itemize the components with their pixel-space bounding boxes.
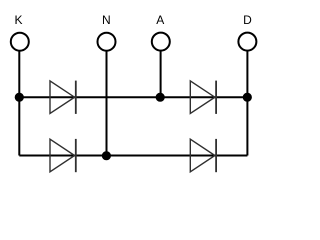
svg-text:D: D [243,13,252,27]
wire A column vertical [160,51,162,97]
wire N column vertical [106,51,108,156]
terminal circle A [152,33,170,51]
diode D3 (lower left, anode left, cathode right) [50,139,76,172]
terminal circle N [98,33,116,51]
terminal circle D [238,33,256,51]
terminal circle K [11,33,29,51]
diode D4 (lower right, anode left, cathode right) [190,139,216,172]
wire upper rail [19,96,247,98]
wire D column vertical [246,51,248,156]
svg-text:N: N [102,13,111,27]
junction node at K / upper rail [15,93,24,102]
wire lower rail [19,155,247,157]
junction node at A / upper rail [156,93,165,102]
diode D1 (upper left, anode left, cathode right) [50,81,76,114]
junction node at D / upper rail [243,93,252,102]
svg-text:K: K [14,13,22,27]
wire K column vertical [18,51,20,156]
svg-text:A: A [156,13,164,27]
junction node at N / lower rail [102,151,111,160]
diode D2 (upper right, anode left, cathode right) [190,81,216,114]
